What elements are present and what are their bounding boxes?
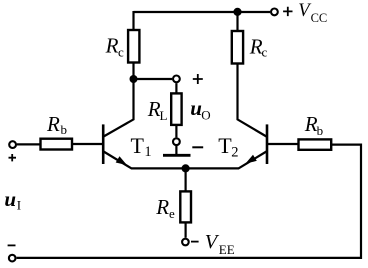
svg-text:e: e xyxy=(169,206,175,221)
svg-text:O: O xyxy=(201,108,210,123)
svg-text:CC: CC xyxy=(311,11,328,25)
svg-text:EE: EE xyxy=(219,242,235,257)
svg-text:u: u xyxy=(4,187,16,211)
svg-text:R: R xyxy=(105,34,119,58)
svg-text:I: I xyxy=(17,198,21,213)
svg-text:b: b xyxy=(317,123,324,138)
svg-text:c: c xyxy=(262,45,268,60)
svg-text:T: T xyxy=(218,133,232,158)
svg-text:b: b xyxy=(61,122,68,137)
svg-text:R: R xyxy=(155,195,169,219)
svg-text:u: u xyxy=(190,96,202,120)
svg-text:1: 1 xyxy=(144,144,151,160)
svg-text:2: 2 xyxy=(231,144,238,160)
svg-text:T: T xyxy=(131,133,145,158)
svg-text:L: L xyxy=(160,108,168,123)
svg-text:R: R xyxy=(46,112,60,136)
svg-text:c: c xyxy=(118,45,124,60)
